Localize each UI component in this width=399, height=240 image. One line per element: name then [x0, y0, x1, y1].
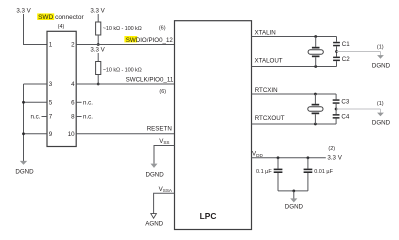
ground rail left (pins 3,5,9)	[23, 84, 25, 162]
svg-text:7: 7	[49, 114, 53, 121]
power 3.3V supply label (top-left)	[16, 8, 31, 15]
svg-text:9: 9	[49, 131, 53, 138]
wire rail to pin9	[24, 133, 48, 135]
connector J1 body	[47, 31, 76, 146]
svg-text:1: 1	[49, 42, 53, 49]
crystal X1	[308, 37, 323, 67]
capacitor 0.01uF	[304, 158, 334, 191]
capacitor C2	[333, 56, 350, 66]
pin 5	[49, 100, 53, 107]
svg-text:DGND: DGND	[372, 120, 391, 127]
pin 10	[68, 131, 75, 138]
wire XTALOUT	[252, 66, 337, 68]
wire pin2 to LPC SWDIO	[76, 44, 174, 46]
net label VSS	[159, 138, 169, 145]
net label RTCXOUT	[255, 115, 285, 122]
svg-text:RTCXIN: RTCXIN	[255, 87, 278, 94]
svg-text:0.01 µF: 0.01 µF	[314, 169, 333, 175]
svg-text:(4): (4)	[58, 24, 65, 30]
svg-text:n.c.: n.c.	[83, 114, 93, 121]
svg-text:n.c.: n.c.	[31, 114, 41, 121]
svg-text:n.c.: n.c.	[83, 100, 93, 107]
capacitor C3	[333, 94, 350, 114]
svg-text:3.3 V: 3.3 V	[16, 8, 31, 15]
svg-text:10: 10	[68, 131, 75, 138]
svg-text:(1): (1)	[377, 101, 384, 107]
svg-text:5: 5	[49, 100, 53, 107]
capacitor C4	[333, 114, 350, 124]
junction VDD/C6	[307, 156, 310, 159]
pin 2	[71, 42, 75, 49]
SWD connector title label	[37, 13, 84, 30]
svg-text:SWDIO/PIO0_12: SWDIO/PIO0_12	[126, 37, 174, 44]
svg-text:(6): (6)	[159, 25, 166, 31]
pin 7	[49, 114, 53, 121]
resistor R2 pull-up ~10k-100k	[96, 53, 142, 84]
junction XTALOUT/crystal	[314, 65, 317, 68]
svg-text:C2: C2	[342, 56, 350, 63]
net label SWDIO/PIO0_12	[124, 25, 173, 44]
junction VDD/C5	[277, 156, 280, 159]
junction C1/C2	[335, 50, 338, 53]
svg-text:RTCXOUT: RTCXOUT	[255, 115, 285, 122]
svg-text:(1): (1)	[377, 45, 384, 51]
wire VDD to 3.3V	[252, 157, 326, 159]
ground DGND (left)	[15, 161, 34, 176]
svg-text:(6): (6)	[159, 89, 166, 95]
svg-text:XTALIN: XTALIN	[255, 29, 276, 36]
wire rail to pin5	[24, 101, 48, 103]
wire pin10 to LPC RESETN	[76, 133, 174, 135]
svg-text:C4: C4	[341, 114, 349, 121]
junction RTCXIN/crystal	[314, 93, 317, 96]
junction C3/C4	[335, 108, 338, 111]
pin 4	[71, 81, 75, 88]
junction R1/pin2 wire	[97, 43, 100, 46]
resistor R1 pull-up ~10k-100k	[96, 14, 142, 45]
wire RTCXOUT	[252, 123, 337, 125]
IC U1 LPC body	[175, 21, 252, 230]
pin 7 n.c. stub	[31, 114, 47, 121]
svg-text:SWD connector: SWD connector	[38, 14, 84, 21]
pin 1	[49, 42, 53, 49]
ground DGND (VSS)	[145, 164, 164, 179]
svg-text:DGND: DGND	[372, 62, 391, 69]
svg-text:3: 3	[49, 81, 53, 88]
ground AGND (open arrow)	[145, 214, 163, 228]
net label VSSA	[159, 186, 173, 193]
net label RESETN	[147, 125, 172, 132]
junction XTALIN/crystal	[314, 35, 317, 38]
svg-text:3.3 V: 3.3 V	[327, 154, 342, 161]
svg-text:3.3 V: 3.3 V	[90, 8, 105, 15]
junction RTCXOUT/crystal	[314, 123, 317, 126]
crystal X2	[308, 94, 323, 124]
net label XTALOUT	[255, 58, 283, 65]
capacitor 0.1uF	[256, 158, 282, 191]
svg-text:~10 kΩ - 100 kΩ: ~10 kΩ - 100 kΩ	[103, 68, 142, 74]
svg-text:SWCLK/PIO0_11: SWCLK/PIO0_11	[126, 76, 174, 83]
junction caps/DGND	[292, 190, 295, 193]
ground DGND (XTAL)	[372, 45, 391, 70]
ground DGND (RTC)	[372, 101, 391, 127]
pin 8	[71, 114, 75, 121]
svg-text:RESETN: RESETN	[147, 125, 172, 132]
svg-text:AGND: AGND	[145, 220, 163, 227]
wire VSSA to analog ground	[154, 193, 175, 213]
svg-text:4: 4	[71, 81, 75, 88]
svg-text:3.3 V: 3.3 V	[90, 47, 105, 54]
junction rail/pin5	[22, 101, 25, 104]
net label RTCXIN	[255, 87, 278, 94]
svg-text:(2): (2)	[328, 146, 335, 152]
svg-text:C1: C1	[342, 41, 350, 48]
svg-text:0.1 µF: 0.1 µF	[256, 169, 272, 175]
ground DGND (VDD caps)	[285, 191, 304, 210]
svg-text:~10 kΩ - 100 kΩ: ~10 kΩ - 100 kΩ	[103, 26, 142, 32]
pin 9	[49, 131, 53, 138]
pin 6	[71, 100, 75, 107]
net label VDD	[252, 151, 263, 158]
svg-text:LPC: LPC	[200, 211, 217, 221]
svg-text:DGND: DGND	[285, 203, 304, 210]
svg-text:DGND: DGND	[15, 169, 34, 176]
wire (light) caps to DGND	[337, 51, 381, 53]
svg-text:XTALOUT: XTALOUT	[255, 58, 283, 65]
svg-text:2: 2	[71, 42, 75, 49]
power 3.3V for R2	[90, 47, 105, 54]
junction rail/pin9	[22, 132, 25, 135]
wire rail to pin3	[24, 83, 48, 85]
net label XTALIN	[255, 29, 276, 36]
wire XTALIN	[252, 36, 337, 38]
wire RTCXIN	[252, 93, 337, 95]
capacitor C1	[333, 37, 350, 57]
wire (light) caps to DGND (RTC)	[336, 108, 380, 110]
pin 6 n.c. stub	[76, 100, 93, 107]
wire 3.3V to pin1	[24, 14, 48, 45]
wire VSS to ground	[154, 146, 175, 164]
wire pin4 to LPC SWCLK	[76, 83, 174, 85]
net label SWCLK/PIO0_11	[126, 76, 174, 94]
junction R2/pin4 wire	[97, 83, 100, 86]
svg-text:6: 6	[71, 100, 75, 107]
power 3.3V for R1	[90, 8, 105, 15]
svg-text:DGND: DGND	[145, 171, 164, 178]
svg-text:C3: C3	[341, 99, 349, 106]
pin 3	[49, 81, 53, 88]
svg-text:8: 8	[71, 114, 75, 121]
wire caps join	[278, 190, 308, 192]
power 3.3V (VDD)	[327, 146, 342, 161]
pin 8 n.c. stub	[76, 114, 93, 121]
